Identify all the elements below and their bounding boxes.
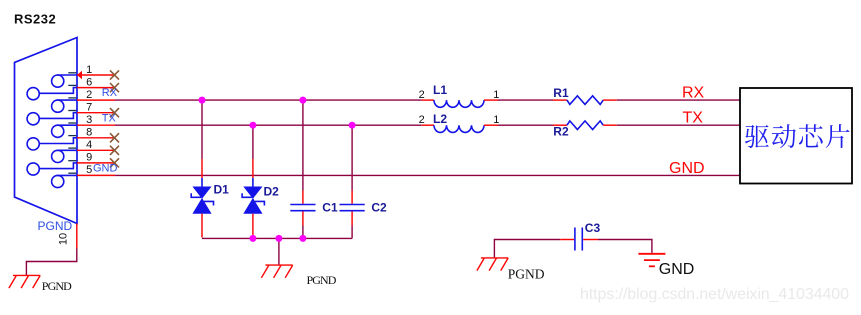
wire TX net (R2 to chip) — [617, 124, 740, 126]
svg-text:TX: TX — [683, 110, 704, 127]
resistor R1 — [553, 96, 617, 105]
wire C1 to ground bus — [302, 226, 304, 239]
pin 1 red arrow marker — [77, 71, 82, 79]
wire GND net (pin5 to chip) — [115, 174, 740, 176]
junction RX/C1 — [299, 97, 306, 104]
svg-text:R1: R1 — [553, 86, 569, 100]
pin 9 dash mark — [68, 160, 76, 162]
svg-text:GND: GND — [659, 261, 695, 278]
svg-text:PGND: PGND — [508, 267, 545, 282]
power port PGND symbol (near C3) — [477, 258, 508, 271]
no-ERC X mark pin 1 — [110, 70, 119, 79]
svg-text:RX: RX — [102, 87, 118, 99]
svg-text:GND: GND — [669, 160, 705, 177]
svg-text:8: 8 — [86, 127, 92, 139]
wire C2 to ground bus — [351, 226, 353, 239]
svg-text:10: 10 — [58, 233, 70, 245]
svg-text:1: 1 — [493, 114, 499, 126]
svg-text:R2: R2 — [553, 125, 569, 139]
svg-text:PGND: PGND — [307, 273, 337, 287]
svg-text:RX: RX — [682, 85, 705, 102]
svg-text:https://blog.csdn.net/weixin_4: https://blog.csdn.net/weixin_41034400 — [580, 286, 849, 303]
pin 8 dash mark — [68, 135, 76, 137]
svg-text:2: 2 — [419, 89, 425, 101]
capacitor C1 — [290, 191, 315, 226]
connector pin 5 — [52, 175, 64, 187]
connector pin 7 — [27, 113, 39, 125]
wire C3 to GND — [598, 240, 652, 253]
junction RX/D1 — [199, 97, 206, 104]
svg-text:PGND: PGND — [42, 279, 72, 293]
resistor R2 — [553, 121, 617, 130]
TVS diode D1 — [191, 159, 213, 238]
wire RX net (L1 to R1) — [498, 99, 553, 101]
junction bus/D2 — [249, 235, 256, 242]
wire PGND to C3 — [494, 240, 560, 258]
no-ERC X mark pin 4 — [110, 146, 119, 155]
TVS diode D2 — [242, 159, 264, 238]
pin 4 unused red stub — [77, 149, 115, 151]
pin 7 dash mark — [68, 110, 76, 112]
wire RX net (pin2 to L1) — [115, 99, 422, 101]
pin 8 unused red stub — [77, 137, 115, 139]
capacitor C2 — [340, 191, 365, 226]
inductor L1 — [422, 100, 498, 107]
junction TX/D2 — [249, 122, 256, 129]
power port PGND symbol (under bus) — [261, 265, 292, 278]
wire protection ground bus — [202, 237, 352, 239]
svg-text:L2: L2 — [433, 112, 447, 126]
pin 5 dash mark — [68, 172, 76, 174]
no-ERC X mark pin 6 — [110, 83, 119, 92]
svg-text:1: 1 — [86, 64, 92, 76]
wire D2 to TX line — [252, 125, 254, 159]
capacitor C3 — [560, 228, 598, 251]
svg-text:2: 2 — [419, 114, 425, 126]
wire TX net (L2 to R2) — [498, 124, 553, 126]
pin 10 shell red lead — [76, 224, 78, 249]
svg-text:C2: C2 — [371, 200, 387, 214]
connector pin 8 — [27, 138, 39, 150]
svg-text:2: 2 — [86, 89, 92, 101]
pin 5 red lead — [77, 174, 115, 176]
wire C1 to RX line — [302, 100, 304, 190]
junction TX/C2 — [349, 122, 356, 129]
connector J1 DB9 outline — [15, 38, 78, 224]
junction bus/C1 — [299, 235, 306, 242]
wire TX net (pin3 to L2) — [115, 124, 422, 126]
svg-text:RS232: RS232 — [14, 12, 56, 27]
svg-text:1: 1 — [493, 89, 499, 101]
driver chip text 驱动芯片 — [745, 124, 850, 148]
svg-text:D1: D1 — [214, 183, 230, 197]
svg-text:7: 7 — [86, 102, 92, 114]
pin 9 unused red stub — [77, 162, 115, 164]
svg-text:3: 3 — [86, 114, 92, 126]
power port PGND symbol (bottom left) — [9, 275, 40, 288]
pin 4 dash mark — [68, 147, 76, 149]
connector pin 3 — [52, 125, 64, 137]
pin 3 red lead — [77, 124, 115, 126]
svg-text:C3: C3 — [585, 221, 601, 235]
svg-text:5: 5 — [86, 164, 92, 176]
svg-text:L1: L1 — [433, 83, 447, 97]
svg-text:D2: D2 — [264, 185, 280, 199]
pin 1 unused red stub — [77, 74, 115, 76]
pin 2 dash mark — [68, 97, 76, 99]
driver chip box — [740, 88, 852, 184]
no-ERC X mark pin 9 — [110, 158, 119, 167]
svg-text:GND: GND — [93, 163, 118, 175]
svg-text:9: 9 — [86, 152, 92, 164]
connector pin 2 — [52, 100, 64, 112]
inductor L2 — [422, 125, 498, 132]
pin 1 dash mark — [68, 72, 76, 74]
svg-text:6: 6 — [86, 76, 92, 88]
connector pin 6 — [27, 88, 39, 100]
pin 3 dash mark — [68, 122, 76, 124]
svg-text:4: 4 — [86, 139, 92, 151]
ground GND symbol — [638, 254, 665, 266]
pin 6 dash mark — [68, 84, 76, 86]
no-ERC X mark pin 7 — [110, 108, 119, 117]
wire D1 to RX line — [201, 100, 203, 159]
no-ERC X mark pin 8 — [110, 133, 119, 142]
connector pin 9 — [27, 163, 39, 175]
wire bus to PGND symbol — [278, 238, 280, 265]
wire C2 to TX line — [351, 125, 353, 190]
svg-text:TX: TX — [102, 112, 117, 124]
svg-text:PGND: PGND — [38, 219, 73, 233]
junction bus/PGND — [275, 235, 282, 242]
wire pin10 to PGND — [26, 249, 76, 276]
pin 6 unused red stub — [77, 87, 115, 89]
wire RX net (R1 to chip) — [617, 99, 740, 101]
connector pin 1 — [52, 75, 64, 87]
pin 2 red lead — [77, 99, 115, 101]
connector pin 4 — [52, 150, 64, 162]
pin 7 unused red stub — [77, 112, 115, 114]
svg-text:C1: C1 — [322, 200, 338, 214]
